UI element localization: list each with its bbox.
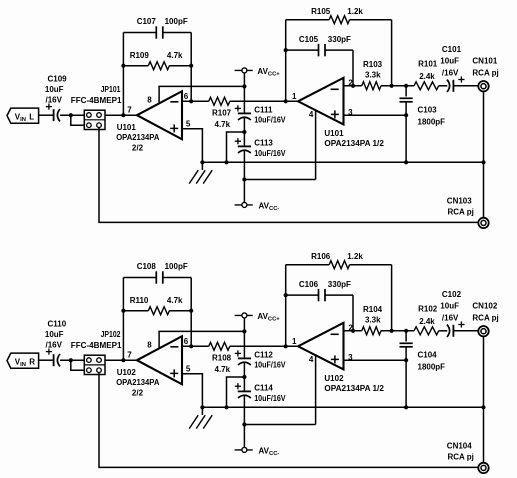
junction: [189, 309, 193, 313]
svg-text:C108: C108: [137, 262, 157, 271]
op-amp U101 (2/2): [116, 91, 182, 152]
junction: [242, 130, 246, 134]
ground: [189, 162, 212, 183]
wire: [286, 294, 319, 296]
svg-text:1.2k: 1.2k: [347, 7, 363, 16]
junction: [404, 84, 408, 88]
wire: [352, 50, 354, 86]
svg-text:8: 8: [147, 95, 152, 104]
svg-text:RCA pj: RCA pj: [448, 208, 474, 217]
junction: [121, 358, 125, 362]
wire -- return to connector: [99, 373, 478, 468]
svg-text:FFC-4BMEP1: FFC-4BMEP1: [71, 96, 122, 105]
junction: [242, 422, 246, 426]
junction: [284, 48, 288, 52]
svg-text:C105: C105: [299, 35, 319, 44]
wire: [243, 396, 245, 448]
wire: [122, 278, 124, 361]
junction: [404, 160, 408, 164]
svg-text:10uF: 10uF: [440, 56, 459, 65]
svg-text:2/2: 2/2: [132, 389, 144, 398]
svg-text:L: L: [29, 113, 34, 122]
svg-text:C110: C110: [48, 320, 67, 329]
svg-text:C112: C112: [254, 350, 273, 359]
wire: [169, 310, 191, 312]
svg-text:8: 8: [147, 340, 152, 349]
resistor R109 4.7k: [130, 51, 183, 70]
wire: [405, 86, 407, 97]
junction: [200, 405, 204, 409]
wire: [243, 363, 245, 392]
svg-text:RCA pj: RCA pj: [472, 68, 498, 77]
junction: [390, 84, 394, 88]
wire: [39, 359, 54, 361]
wire: [182, 374, 202, 408]
wire: [483, 91, 485, 217]
wire: [381, 330, 414, 332]
svg-text:R108: R108: [212, 353, 232, 362]
wire -- pin 4 stub: [315, 355, 317, 425]
op-amp U101 (1/2): [298, 78, 384, 148]
svg-text:100pF: 100pF: [165, 262, 188, 271]
resistor R101 2.4k: [414, 60, 439, 90]
svg-text:3.3k: 3.3k: [365, 70, 381, 79]
svg-text:RCA pj: RCA pj: [472, 313, 498, 322]
junction: [121, 64, 125, 68]
wire: [60, 359, 84, 361]
wire: [453, 330, 478, 332]
capacitor C113 10uF/16V: [235, 138, 286, 158]
wire: [182, 129, 202, 163]
wire: [405, 347, 407, 408]
junction: [404, 405, 408, 409]
svg-text:3.3k: 3.3k: [365, 315, 381, 324]
capacitor C109 10uF/16V: [45, 75, 67, 122]
svg-text:OPA2134PA 1/2: OPA2134PA 1/2: [324, 384, 384, 393]
capacitor C112 10uF/16V: [235, 350, 286, 369]
wire: [350, 19, 392, 21]
wire: [406, 406, 483, 408]
op-amp U102 (1/2): [298, 323, 384, 393]
power terminal AVCC-: [235, 202, 280, 213]
wire: [39, 114, 54, 116]
svg-text:R101: R101: [418, 60, 438, 69]
connector JP101 FFC-4BMEP1: [71, 85, 122, 129]
junction: [404, 329, 408, 333]
capacitor C105 330pF: [299, 35, 351, 56]
resistor R102 2.4k: [414, 305, 439, 335]
wire: [325, 49, 353, 51]
junction: [404, 358, 408, 362]
svg-text:5: 5: [186, 365, 191, 374]
wire: [344, 85, 362, 87]
wire: [163, 32, 191, 34]
capacitor C106 330pF: [299, 280, 351, 301]
resistor R105 1.2k: [311, 7, 363, 24]
wire: [439, 330, 448, 332]
capacitor C102 10uF/16V: [440, 290, 464, 337]
junction: [284, 293, 288, 297]
junction: [242, 329, 246, 333]
wire: [243, 73, 245, 114]
capacitor C111 10uF/16V: [235, 105, 286, 124]
svg-text:2/2: 2/2: [132, 144, 144, 153]
wire -- AVCC- branch to pin 4: [244, 179, 315, 181]
svg-text:U101: U101: [117, 123, 137, 132]
wire: [123, 65, 148, 67]
svg-text:R105: R105: [311, 7, 331, 16]
svg-text:4.7k: 4.7k: [215, 365, 231, 374]
wire: [285, 20, 287, 102]
op-amp U102 (2/2): [116, 336, 182, 397]
svg-text:10uF: 10uF: [45, 330, 64, 339]
RCA jack CN103: [447, 197, 489, 229]
svg-text:C111: C111: [254, 105, 273, 114]
junction: [121, 113, 125, 117]
wire -- pin 3 line: [344, 114, 407, 116]
capacitor C108 100pF: [137, 262, 188, 284]
ground: [189, 407, 212, 428]
svg-text:CN103: CN103: [447, 197, 472, 206]
resistor R107 4.7k: [209, 97, 232, 129]
svg-text:R106: R106: [311, 252, 331, 261]
wire: [105, 114, 137, 116]
svg-text:6: 6: [184, 92, 189, 101]
wire: [123, 310, 148, 312]
svg-text:U102: U102: [324, 374, 344, 383]
wire: [350, 264, 392, 266]
wire: [105, 359, 137, 361]
wire: [285, 265, 287, 347]
svg-text:1.2k: 1.2k: [347, 252, 363, 261]
svg-text:R109: R109: [130, 51, 150, 60]
wire -- pin 3 line: [344, 359, 407, 361]
resistor R104 3.3k: [362, 305, 383, 335]
wire: [344, 330, 362, 332]
svg-text:10uF/16V: 10uF/16V: [254, 361, 286, 370]
svg-text:CN101: CN101: [472, 56, 497, 65]
svg-text:7: 7: [127, 351, 132, 360]
svg-text:CN102: CN102: [472, 301, 497, 310]
wire: [190, 33, 192, 102]
svg-text:U102: U102: [117, 368, 137, 377]
svg-text:R102: R102: [418, 305, 438, 314]
svg-text:R104: R104: [363, 305, 383, 314]
wire: [483, 336, 485, 463]
capacitor C103 1800pF: [400, 98, 446, 126]
wire: [163, 277, 191, 279]
svg-text:10uF/16V: 10uF/16V: [254, 394, 286, 403]
svg-text:OPA2134PA: OPA2134PA: [116, 378, 159, 387]
wire: [325, 294, 353, 296]
wire: [227, 132, 245, 162]
svg-text:R: R: [29, 358, 35, 367]
wire: [243, 318, 245, 359]
svg-text:OPA2134PA 1/2: OPA2134PA 1/2: [324, 139, 384, 148]
junction: [242, 84, 246, 88]
svg-text:C113: C113: [254, 139, 273, 148]
svg-text:JP102: JP102: [101, 330, 121, 339]
wire: [391, 20, 393, 86]
wire: [159, 86, 244, 103]
wire: [230, 100, 298, 102]
capacitor C114 10uF/16V: [235, 383, 286, 403]
junction: [121, 309, 125, 313]
svg-text:C109: C109: [48, 75, 68, 84]
capacitor C104 1800pF: [400, 343, 446, 371]
junction: [189, 99, 193, 103]
junction: [284, 99, 288, 103]
wire: [169, 65, 191, 67]
svg-text:R107: R107: [212, 108, 232, 117]
svg-text:R103: R103: [363, 60, 383, 69]
svg-text:4.7k: 4.7k: [215, 120, 231, 129]
capacitor C107 100pF: [137, 17, 188, 39]
wire: [123, 32, 156, 34]
wire: [405, 331, 407, 342]
power terminal AVCC+: [235, 312, 281, 323]
svg-text:2.4k: 2.4k: [419, 72, 435, 81]
junction: [69, 358, 73, 362]
wire: [286, 49, 319, 51]
svg-text:R110: R110: [130, 296, 149, 305]
wire: [227, 377, 245, 407]
svg-text:OPA2134PA: OPA2134PA: [116, 133, 159, 142]
svg-text:330pF: 330pF: [328, 280, 351, 289]
svg-text:2.4k: 2.4k: [419, 317, 435, 326]
svg-text:JP101: JP101: [101, 85, 121, 94]
junction: [351, 84, 355, 88]
svg-text:C107: C107: [137, 17, 157, 26]
svg-text:7: 7: [127, 106, 132, 115]
wire: [243, 151, 245, 203]
junction: [390, 329, 394, 333]
svg-text:4.7k: 4.7k: [167, 296, 183, 305]
svg-text:1800pF: 1800pF: [418, 363, 446, 372]
wire: [230, 345, 298, 347]
svg-text:1800pF: 1800pF: [418, 118, 446, 127]
node VINR input flag: [7, 353, 39, 368]
wire: [439, 85, 448, 87]
wire: [159, 331, 244, 348]
RCA jack CN102: [472, 301, 498, 336]
wire: [71, 360, 85, 370]
svg-text:6: 6: [184, 337, 189, 346]
svg-text:10uF: 10uF: [45, 85, 64, 94]
svg-text:FFC-4BMEP1: FFC-4BMEP1: [71, 341, 122, 350]
power terminal AVCC-: [235, 447, 280, 458]
wire: [405, 102, 407, 163]
wire -- ground rail: [202, 161, 406, 163]
wire: [122, 33, 124, 116]
junction: [351, 329, 355, 333]
svg-text:4.7k: 4.7k: [167, 51, 183, 60]
wire: [182, 345, 209, 347]
wire: [352, 295, 354, 331]
node VINL input flag: [7, 108, 39, 123]
junction: [242, 177, 246, 181]
resistor R103 3.3k: [362, 60, 383, 90]
wire -- AVCC- branch to pin 4: [244, 424, 315, 426]
junction: [189, 64, 193, 68]
RCA jack CN101: [472, 56, 498, 91]
svg-text:C103: C103: [418, 106, 438, 115]
wire: [123, 277, 156, 279]
wire: [286, 264, 330, 266]
RCA jack CN104: [447, 442, 489, 474]
junction: [481, 405, 485, 409]
junction: [224, 405, 228, 409]
junction: [69, 113, 73, 117]
wire: [391, 265, 393, 331]
svg-text:C102: C102: [442, 290, 462, 299]
junction: [404, 113, 408, 117]
junction: [200, 160, 204, 164]
wire: [381, 85, 414, 87]
svg-text:/16V: /16V: [46, 96, 63, 105]
wire: [243, 118, 245, 147]
svg-text:C101: C101: [442, 45, 462, 54]
svg-text:4: 4: [309, 110, 314, 119]
svg-text:/16V: /16V: [442, 68, 459, 77]
svg-text:100pF: 100pF: [165, 17, 188, 26]
svg-text:10uF: 10uF: [440, 301, 459, 310]
svg-text:/16V: /16V: [46, 341, 63, 350]
capacitor C101 10uF/16V: [440, 45, 464, 92]
svg-text:10uF/16V: 10uF/16V: [254, 149, 286, 158]
wire -- ground rail: [202, 406, 406, 408]
wire: [190, 278, 192, 347]
svg-text:C114: C114: [254, 384, 273, 393]
svg-text:C106: C106: [299, 280, 319, 289]
resistor R106 1.2k: [311, 252, 363, 269]
wire: [60, 114, 84, 116]
svg-text:330pF: 330pF: [328, 35, 351, 44]
svg-text:5: 5: [186, 120, 191, 129]
capacitor C110 10uF/16V: [45, 320, 67, 367]
svg-text:RCA pj: RCA pj: [448, 453, 474, 462]
wire -- pin 4 stub: [315, 110, 317, 180]
svg-text:4: 4: [309, 355, 314, 364]
svg-text:C104: C104: [418, 351, 438, 360]
junction: [224, 160, 228, 164]
junction: [189, 344, 193, 348]
power terminal AVCC+: [235, 67, 281, 78]
svg-text:10uF/16V: 10uF/16V: [254, 116, 286, 125]
svg-text:1: 1: [292, 337, 297, 346]
svg-text:U101: U101: [324, 129, 344, 138]
connector JP102 FFC-4BMEP1: [71, 330, 122, 374]
junction: [242, 375, 246, 379]
wire: [182, 100, 209, 102]
wire: [453, 85, 478, 87]
resistor R108 4.7k: [209, 342, 232, 374]
svg-text:1: 1: [292, 92, 297, 101]
wire: [406, 161, 483, 163]
junction: [284, 344, 288, 348]
wire: [71, 115, 85, 125]
resistor R110 4.7k: [130, 296, 183, 315]
svg-text:/16V: /16V: [442, 313, 459, 322]
junction: [481, 160, 485, 164]
wire: [286, 19, 330, 21]
svg-text:CN104: CN104: [447, 442, 472, 451]
wire -- return to connector: [99, 128, 478, 223]
